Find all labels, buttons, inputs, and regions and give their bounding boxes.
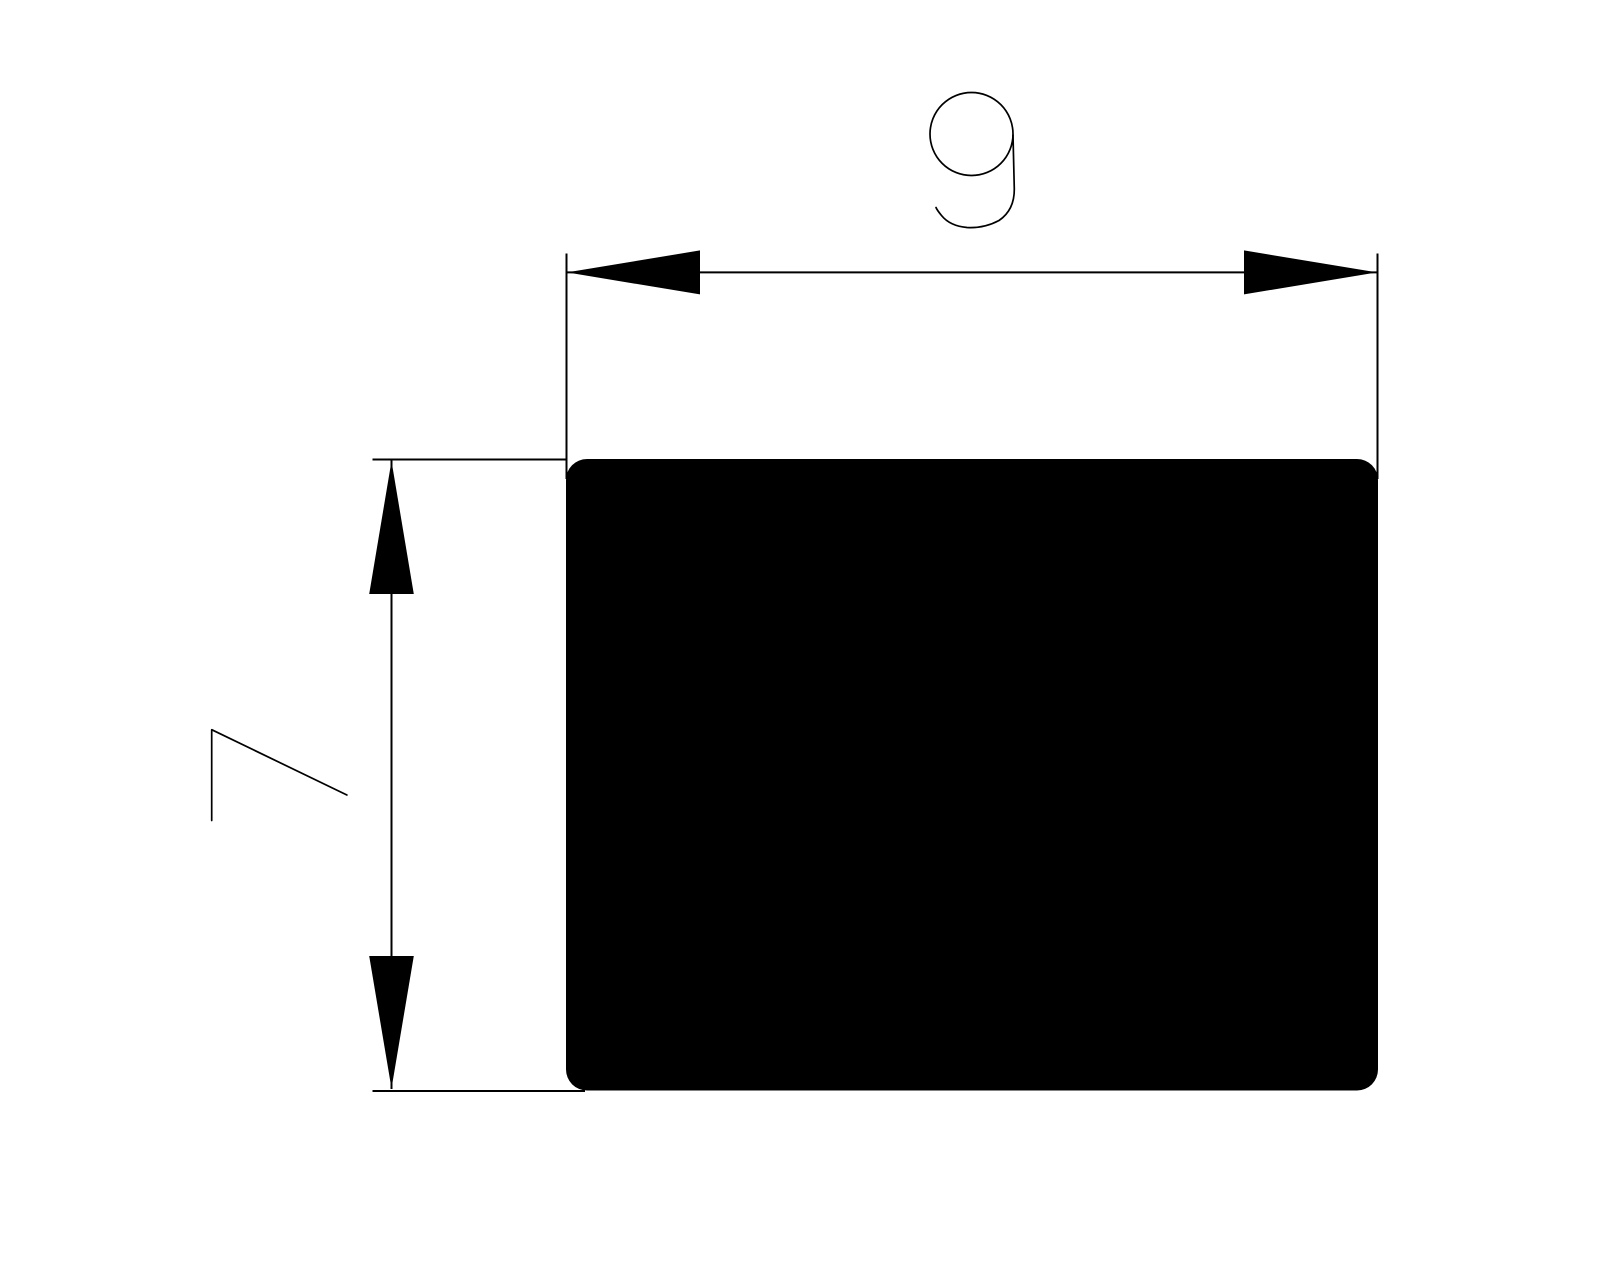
width dimension: left extension line bbox=[566, 254, 568, 480]
width arrow left bbox=[567, 250, 700, 294]
width value 9 bbox=[930, 93, 1014, 228]
height dimension: bottom extension line bbox=[373, 1090, 586, 1092]
height dimension: top extension line bbox=[373, 459, 568, 461]
width dimension: right extension line bbox=[1377, 254, 1379, 480]
width arrow right bbox=[1244, 250, 1377, 294]
profile cross-section (black rounded rectangle) bbox=[566, 459, 1378, 1091]
height dimension line bbox=[391, 461, 393, 1090]
height value 7 bbox=[212, 730, 347, 821]
height arrow top bbox=[369, 461, 414, 594]
height arrow bottom bbox=[369, 956, 414, 1089]
width dimension line bbox=[567, 271, 1378, 273]
